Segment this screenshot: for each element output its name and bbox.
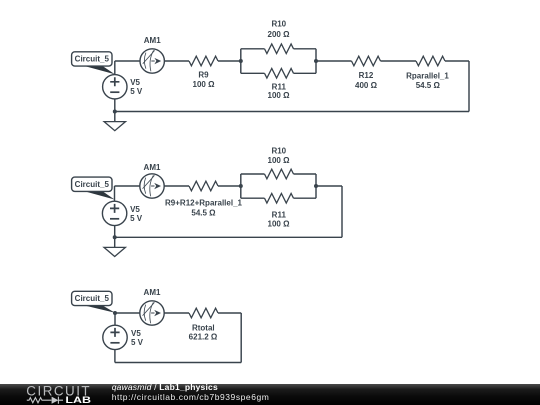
node junction left xyxy=(239,59,243,63)
resistor R10 xyxy=(265,169,294,179)
svg-text:R11: R11 xyxy=(272,211,287,220)
wire node V5top to AM1 left xyxy=(115,185,140,187)
node junction ground xyxy=(113,110,117,114)
flag Circuit_5 pointer xyxy=(83,66,115,75)
footer bar background xyxy=(0,384,540,405)
node junction ground xyxy=(113,235,117,239)
wire bottom return xyxy=(115,236,342,238)
wire bottom branch left lead xyxy=(241,197,265,199)
flag Circuit_5 box xyxy=(72,291,112,305)
svg-text:R10: R10 xyxy=(271,147,286,156)
svg-text:qawasmid / Lab1_physics: qawasmid / Lab1_physics xyxy=(112,382,218,392)
svg-text:5 V: 5 V xyxy=(131,338,144,347)
svg-text:V5: V5 xyxy=(130,205,140,214)
resistor R11 xyxy=(265,69,294,79)
ammeter AM1 xyxy=(140,49,164,73)
wire V5 top lead xyxy=(114,313,116,325)
resistor R11 xyxy=(265,193,294,203)
wire AM1 to Rtotal xyxy=(164,312,189,314)
svg-text:AM1: AM1 xyxy=(144,163,161,172)
logo resistor squiggle xyxy=(27,398,52,403)
wire right edge vertical xyxy=(341,186,343,237)
svg-text:100 Ω: 100 Ω xyxy=(268,156,291,165)
node junction V5 top xyxy=(113,311,117,315)
svg-text:http://circuitlab.com/cb7b939s: http://circuitlab.com/cb7b939spe6gm xyxy=(112,392,270,402)
svg-text:100 Ω: 100 Ω xyxy=(268,220,291,229)
wire top branch left lead xyxy=(241,48,265,50)
wire right edge vertical xyxy=(240,313,242,363)
svg-text:Circuit_5: Circuit_5 xyxy=(75,180,110,189)
wire parallel block to R12 xyxy=(316,60,352,62)
resistor R9 xyxy=(189,56,218,66)
svg-text:V5: V5 xyxy=(131,329,141,338)
svg-text:AM1: AM1 xyxy=(144,288,161,297)
resistor R9+R12+Rparallel_1 xyxy=(189,181,218,191)
wire R12 to Rparallel_1 xyxy=(381,60,417,62)
resistor R10 xyxy=(265,44,294,54)
wire Req to parallel block xyxy=(218,185,241,187)
wire bottom branch right lead xyxy=(294,72,317,74)
svg-text:54.5 Ω: 54.5 Ω xyxy=(191,209,216,218)
svg-text:LAB: LAB xyxy=(65,395,91,405)
wire left vertical of parallel block xyxy=(240,49,242,74)
ammeter AM1 xyxy=(140,301,164,325)
wire right edge vertical xyxy=(468,61,470,112)
ground xyxy=(104,247,125,256)
resistor Rparallel_1 xyxy=(416,56,445,66)
node junction right xyxy=(314,59,318,63)
wire top branch right lead xyxy=(294,173,317,175)
svg-text:200 Ω: 200 Ω xyxy=(268,30,291,39)
node junction right xyxy=(314,184,318,188)
wire bottom branch left lead xyxy=(241,72,265,74)
wire V5 bottom lead xyxy=(114,350,116,363)
svg-text:AM1: AM1 xyxy=(144,36,161,45)
voltage source V5 xyxy=(103,325,127,349)
voltage source V5 xyxy=(103,75,127,99)
svg-text:5 V: 5 V xyxy=(130,87,143,96)
wire top branch left lead xyxy=(241,173,265,175)
svg-text:R10: R10 xyxy=(271,20,286,29)
svg-text:Circuit_5: Circuit_5 xyxy=(75,55,110,64)
svg-text:R9: R9 xyxy=(198,71,209,80)
svg-text:Rparallel_1: Rparallel_1 xyxy=(406,71,449,80)
svg-text:54.5 Ω: 54.5 Ω xyxy=(416,81,441,90)
flag Circuit_5 pointer xyxy=(83,191,115,200)
wire bottom branch right lead xyxy=(294,197,317,199)
ammeter AM1 xyxy=(140,174,164,198)
svg-text:Rtotal: Rtotal xyxy=(192,323,215,332)
wire parallel block to right edge xyxy=(316,185,342,187)
wire node V5top to AM1 left xyxy=(115,312,140,314)
wire bottom return xyxy=(115,111,469,113)
svg-text:Circuit_5: Circuit_5 xyxy=(75,294,110,303)
svg-text:R12: R12 xyxy=(359,71,374,80)
svg-text:100 Ω: 100 Ω xyxy=(193,80,216,89)
svg-text:R9+R12+Rparallel_1: R9+R12+Rparallel_1 xyxy=(165,199,242,208)
wire bottom return xyxy=(115,362,241,364)
svg-text:V5: V5 xyxy=(130,78,140,87)
wire AM1 to Req xyxy=(164,185,189,187)
svg-text:400 Ω: 400 Ω xyxy=(355,81,378,90)
resistor R12 xyxy=(352,56,381,66)
wire right vertical of parallel block xyxy=(315,49,317,74)
wire V5 top lead xyxy=(114,61,116,75)
svg-text:621.2 Ω: 621.2 Ω xyxy=(189,333,218,342)
wire Rparallel_1 to right edge xyxy=(445,60,469,62)
wire left vertical of parallel block xyxy=(240,174,242,198)
flag Circuit_5 box xyxy=(72,52,112,66)
flag Circuit_5 pointer xyxy=(83,305,115,313)
wire top branch right lead xyxy=(294,48,317,50)
wire right vertical of parallel block xyxy=(315,174,317,198)
wire Rtotal to right edge xyxy=(218,312,241,314)
wire V5 bottom lead xyxy=(114,226,116,248)
svg-text:5 V: 5 V xyxy=(130,214,143,223)
logo diode symbol xyxy=(52,397,59,404)
wire V5 bottom lead xyxy=(114,99,116,122)
voltage source V5 xyxy=(102,201,126,225)
resistor Rtotal xyxy=(189,308,218,318)
svg-text:100 Ω: 100 Ω xyxy=(268,91,291,100)
wire AM1 to R9 xyxy=(164,60,189,62)
flag Circuit_5 box xyxy=(72,177,112,191)
node junction left xyxy=(239,184,243,188)
wire R9 to parallel block xyxy=(218,60,241,62)
wire node V5top to AM1 left xyxy=(115,60,140,62)
wire V5 top lead xyxy=(114,186,116,201)
ground xyxy=(104,122,125,131)
